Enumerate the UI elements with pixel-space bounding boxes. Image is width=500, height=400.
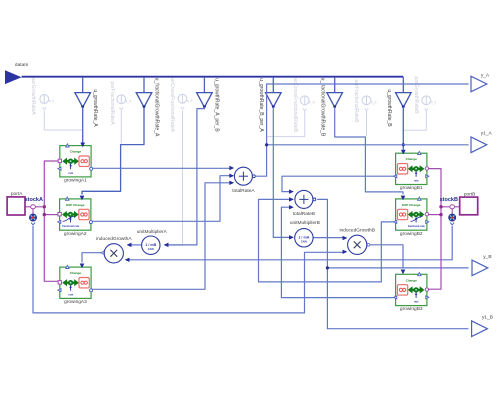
output connector y_B [472, 254, 492, 276]
junction T6 wire x y1_A line [402, 143, 405, 146]
svg-text:a_0: a_0 [49, 99, 55, 103]
svg-text:b_0: b_0 [431, 101, 437, 105]
component growingB3 [394, 273, 429, 313]
svg-text:parFractionalRateB: parFractionalRateB [353, 79, 359, 123]
gain block u_growthRate_A_per_B [197, 77, 220, 132]
svg-text:GAIN: GAIN [148, 248, 154, 251]
wire totalRateB.y riser to outputs [317, 199, 468, 328]
svg-text:b_A: b_A [309, 101, 316, 105]
wire growingA1.y to totalRateA [92, 167, 230, 169]
gain block u_growthRate_B_per_A [258, 77, 281, 132]
svg-text:Change: Change [70, 271, 82, 275]
svg-text:parCrossFractionalRateA: parCrossFractionalRateA [169, 76, 175, 133]
wire unitMultiplierA.y to inducedGrowthA [131, 244, 142, 246]
svg-text:parFractionalRateA: parFractionalRateA [109, 81, 115, 125]
wire u_fractionalGrowthRate_B to growingB2 [335, 107, 403, 194]
faded parameter source parCrossFractionalRateA [169, 76, 192, 133]
svg-text:inducedGrowthB: inducedGrowthB [339, 228, 374, 234]
wire u_growthRate_B_per_A to unitMultiplierB [273, 107, 290, 237]
component growingB2 [394, 197, 429, 237]
svg-text:u_fractionalGrowthRate_B: u_fractionalGrowthRate_B [320, 78, 326, 137]
faded wire a_0 to node [44, 111, 82, 131]
faded parameter source parGrowthRateB [413, 76, 436, 114]
svg-text:EXP Change: EXP Change [66, 203, 85, 207]
svg-text:dataIn: dataIn [15, 62, 29, 68]
wire growingA2.y to totalRateA [91, 176, 230, 222]
svg-text:totalRateB: totalRateB [293, 211, 315, 217]
wire stockA port net (magenta) [44, 161, 58, 281]
faded wire a_B down [169, 111, 183, 246]
svg-text:EXP Change: EXP Change [402, 203, 421, 207]
wire stockB port net (magenta) [429, 169, 441, 290]
svg-text:y1_B: y1_B [482, 315, 493, 321]
output connector y1_A [471, 131, 492, 153]
arrowhead overlay [80, 143, 406, 275]
wire dataIn bus [22, 76, 404, 78]
gain block u_fractionalGrowthRate_A [136, 77, 159, 137]
svg-text:u_fractionalGrowthRate_A: u_fractionalGrowthRate_A [153, 78, 159, 137]
wire portB to net [441, 206, 460, 208]
faded parameter source parGrowthRateA [30, 77, 55, 115]
wire u_fractionalGrowthRate_A to growingA2 [82, 107, 144, 194]
svg-text:Change: Change [406, 278, 418, 282]
svg-text:u_growthRate_A_per_B: u_growthRate_A_per_B [214, 78, 220, 132]
svg-text:rate: rate [68, 292, 73, 296]
junction stockB net 2 [439, 213, 442, 216]
wire tap to y_B [327, 267, 468, 269]
svg-text:parGrowthRateB: parGrowthRateB [413, 76, 419, 114]
svg-text:u_growthRate_B: u_growthRate_B [386, 89, 392, 127]
svg-text:rate: rate [414, 179, 419, 183]
output connector y1_B [472, 315, 493, 337]
wire growingA3.y to totalRateA [91, 183, 230, 289]
svg-text:growingA3: growingA3 [64, 299, 87, 305]
svg-text:stockB: stockB [440, 197, 458, 203]
input connector dataIn [5, 62, 29, 84]
multiplier inducedGrowthA [96, 236, 132, 263]
port portA [7, 191, 25, 215]
component growingB1 [394, 151, 429, 191]
wire inducedGrowthB.y to growingB3 [370, 245, 403, 269]
junction stockB net 1 [439, 205, 442, 208]
svg-text:unitMultiplierA: unitMultiplierA [137, 229, 168, 235]
faded parameter source parCrossFractionalRateB [292, 76, 315, 133]
wire u_growthRate_B to growingB1 [402, 107, 404, 150]
component growingA1 [58, 144, 93, 184]
svg-text:a_B: a_B [187, 99, 193, 103]
svg-text:u_growthRate_A: u_growthRate_A [92, 89, 98, 127]
adder totalRateA [232, 167, 255, 194]
gain block u_growthRate_A [75, 77, 98, 127]
faded wire b_A down [267, 111, 305, 137]
wire stockA.y to inducedGrowthB [33, 226, 344, 313]
faded parameter source parFractionalRateB [353, 79, 377, 123]
svg-text:1 / mA: 1 / mA [298, 236, 309, 240]
svg-text:portA: portA [11, 191, 23, 197]
wire growingB2.y to totalRateB [259, 199, 396, 282]
gain unitMultiplierA [137, 229, 168, 255]
svg-text:y_A: y_A [481, 72, 490, 78]
gain block u_growthRate_B [386, 77, 411, 127]
wire stockB.y to inducedGrowthA [129, 226, 453, 260]
faded wire b_B down [366, 111, 368, 137]
svg-text:Change: Change [406, 157, 418, 161]
svg-text:portB: portB [464, 191, 475, 197]
wire growingB3.y to totalRateB [281, 207, 395, 297]
svg-text:fractional rate: fractional rate [408, 224, 426, 228]
wire growingB1.y to totalRateB [282, 176, 394, 191]
svg-text:totalRateA: totalRateA [232, 188, 255, 194]
adder totalRateB [293, 190, 316, 217]
port portB [460, 191, 478, 215]
junction stockA net 1 [43, 205, 46, 208]
svg-text:b_B: b_B [371, 101, 377, 105]
wire tap to y1_A [267, 144, 469, 146]
svg-text:y1_A: y1_A [481, 131, 493, 137]
svg-text:u_growthRate_B_per_A: u_growthRate_B_per_A [258, 78, 264, 132]
svg-text:fractional rate: fractional rate [62, 224, 80, 228]
faded wire a_A down [120, 111, 122, 144]
svg-text:unitMultiplierB: unitMultiplierB [290, 220, 320, 226]
wire u_growthRate_A to growingA1 [82, 107, 84, 143]
svg-text:growingB2: growingB2 [400, 231, 423, 237]
wire net to growingA2 [44, 214, 58, 216]
component growingA2 [58, 197, 93, 237]
wire portA to net [25, 206, 44, 208]
svg-text:GAIN: GAIN [301, 240, 307, 243]
svg-text:stockA: stockA [25, 197, 43, 203]
wire inducedGrowthA.y to growingA3 [82, 253, 104, 263]
junction stockA net 2 [43, 213, 46, 216]
faded wire b_0 to node [404, 111, 427, 131]
stock stockA [25, 197, 43, 225]
svg-text:y_B: y_B [483, 254, 491, 260]
svg-text:growingA1: growingA1 [64, 178, 87, 184]
wire unitMultiplierB.y to inducedGrowthB [313, 237, 343, 239]
wire totalRateA.y riser to outputs [256, 84, 469, 176]
svg-text:rate: rate [68, 171, 73, 175]
svg-text:parGrowthRateA: parGrowthRateA [30, 77, 36, 115]
svg-text:1 / mB: 1 / mB [145, 243, 156, 247]
wire u_growthRate_A_per_B to unitMultiplierA [168, 107, 205, 245]
svg-text:inducedGrowthA: inducedGrowthA [96, 236, 132, 242]
svg-text:a_A: a_A [126, 100, 133, 104]
svg-text:growingA2: growingA2 [64, 231, 87, 237]
faded parameter source parFractionalRateA [109, 81, 132, 125]
component growingA3 [58, 265, 93, 305]
svg-text:growingB1: growingB1 [400, 185, 423, 191]
svg-text:Change: Change [70, 150, 82, 154]
wire net to growingB2 [429, 214, 441, 216]
stock stockB [440, 197, 458, 225]
gain unitMultiplierB [290, 220, 320, 247]
gain block u_fractionalGrowthRate_B [320, 77, 343, 137]
output connector y_A [471, 72, 490, 92]
svg-text:growingB3: growingB3 [400, 306, 423, 312]
multiplier inducedGrowthB [339, 228, 374, 255]
svg-text:rate: rate [414, 300, 419, 304]
